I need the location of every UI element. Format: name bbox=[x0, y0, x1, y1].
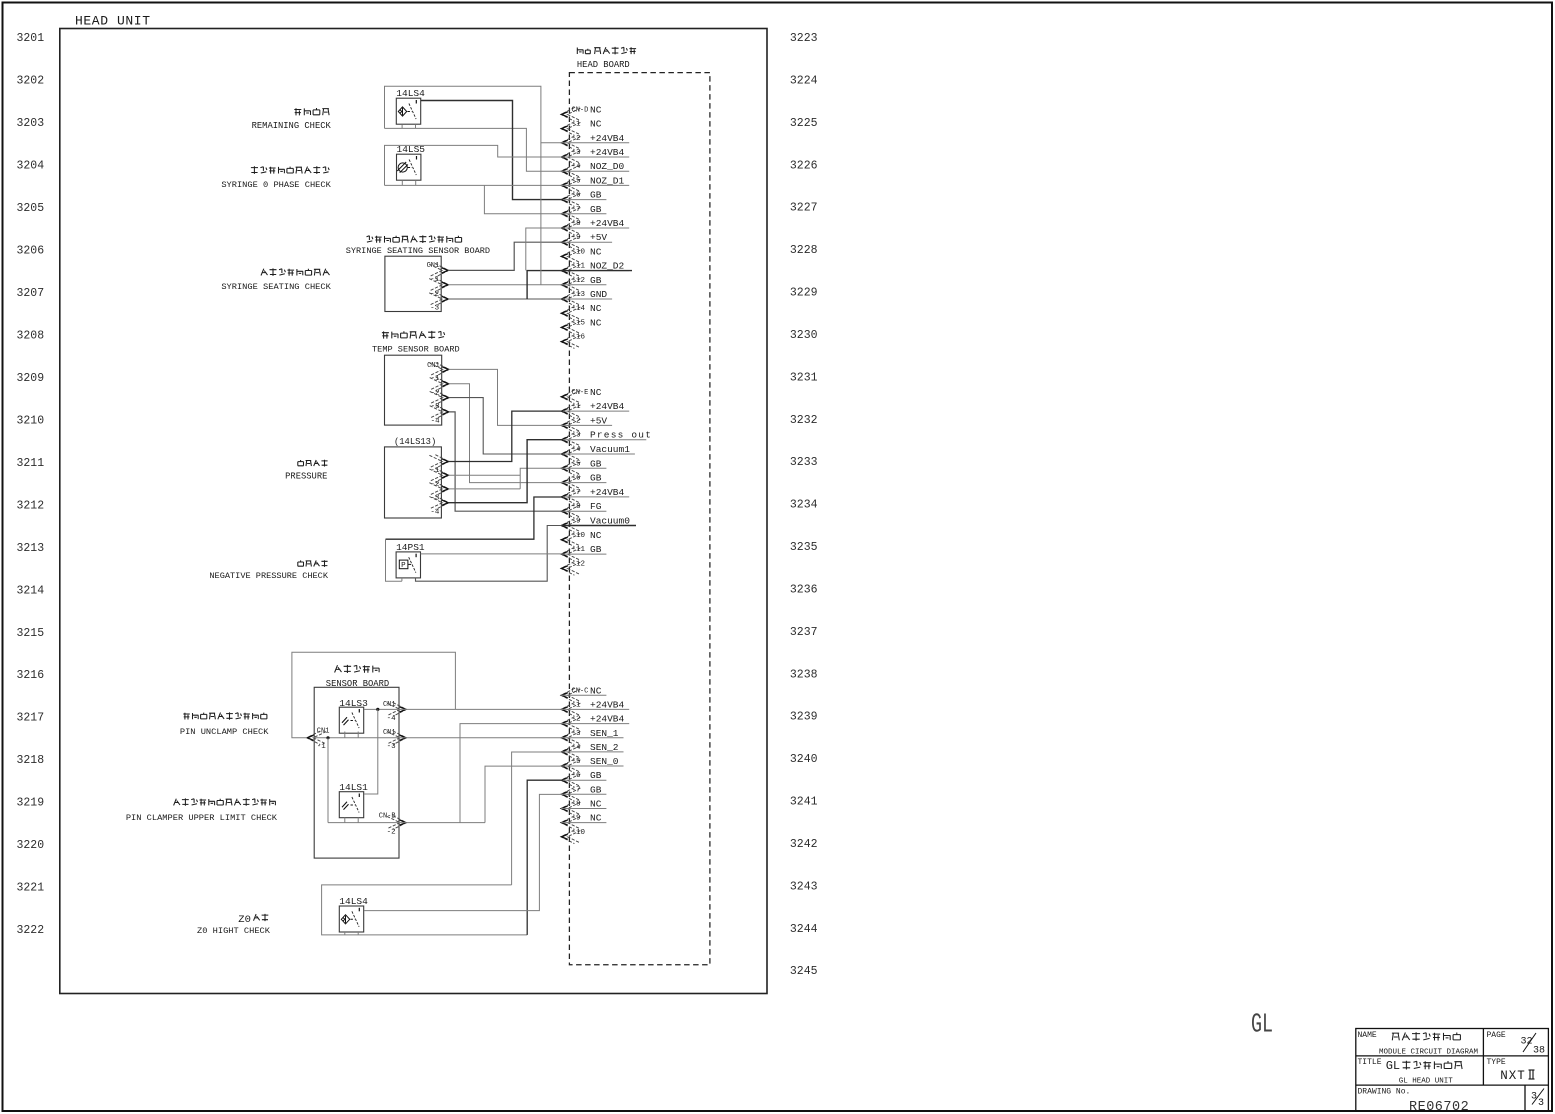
svg-text:CN1: CN1 bbox=[427, 362, 440, 370]
svg-text:NC: NC bbox=[590, 530, 602, 541]
svg-text:3237: 3237 bbox=[790, 626, 818, 639]
svg-text:-5: -5 bbox=[572, 177, 582, 185]
svg-text:+24VB4: +24VB4 bbox=[590, 147, 625, 158]
svg-text:P: P bbox=[401, 562, 406, 570]
svg-text:14LS4: 14LS4 bbox=[396, 88, 425, 99]
connector CN1 temp board pin2 bbox=[430, 377, 449, 391]
wire pressure pin2/pin3 to CN-E-5 GB bbox=[448, 474, 520, 476]
wire CN1-1 loop over board top bbox=[292, 652, 456, 738]
svg-text:3215: 3215 bbox=[17, 627, 45, 640]
wire 14LS1 legs bbox=[344, 818, 346, 823]
svg-text:TEMP SENSOR BOARD: TEMP SENSOR BOARD bbox=[372, 345, 460, 355]
wire 14LS4 bottom to NOZ_D0 riser bbox=[385, 128, 564, 171]
svg-text:3243: 3243 bbox=[790, 880, 818, 893]
connector CN-C pin -4 SEN_2 bbox=[561, 742, 624, 759]
connector CN-C pin -10 bbox=[561, 829, 586, 844]
svg-text:-3: -3 bbox=[387, 743, 397, 751]
svg-text:-12: -12 bbox=[572, 560, 586, 568]
svg-text:3236: 3236 bbox=[790, 584, 818, 597]
temp sensor board outline bbox=[385, 355, 442, 425]
svg-text:NC: NC bbox=[590, 104, 602, 115]
wire 14PS1 to CN-E-11 GB bbox=[421, 553, 564, 555]
svg-text:3241: 3241 bbox=[790, 796, 818, 809]
svg-text:3214: 3214 bbox=[17, 584, 45, 597]
svg-text:-5: -5 bbox=[572, 460, 582, 468]
svg-text:+24VB4: +24VB4 bbox=[590, 133, 625, 144]
svg-text:Z0: Z0 bbox=[238, 914, 251, 926]
svg-text:TYPE: TYPE bbox=[1487, 1058, 1506, 1067]
grid reference numbers left column 3201-3222 bbox=[17, 32, 45, 937]
svg-text:GL: GL bbox=[1386, 1059, 1400, 1073]
label 圧力指示 bbox=[298, 460, 328, 467]
label シリンジ着座確認 bbox=[261, 268, 330, 276]
svg-text:GB: GB bbox=[590, 784, 602, 795]
connector CN-E pin -10 NC bbox=[561, 530, 602, 547]
wire 14LS5 return to CN-D-7 GB bbox=[484, 185, 563, 213]
svg-text:-2: -2 bbox=[387, 828, 396, 836]
svg-text:-8: -8 bbox=[572, 503, 581, 511]
svg-text:-3: -3 bbox=[572, 432, 582, 440]
svg-text:NEGATIVE PRESSURE CHECK: NEGATIVE PRESSURE CHECK bbox=[209, 571, 328, 581]
svg-text:PIN CLAMPER UPPER LIMIT CHECK: PIN CLAMPER UPPER LIMIT CHECK bbox=[126, 813, 278, 823]
svg-text:-2: -2 bbox=[572, 417, 581, 425]
svg-text:GB: GB bbox=[590, 204, 602, 215]
wire 14LS4 output to CN-D-6 GB bbox=[421, 101, 563, 200]
svg-text:PAGE: PAGE bbox=[1487, 1031, 1506, 1040]
svg-text:(14LS13): (14LS13) bbox=[394, 437, 436, 447]
wire +24VB4 drop to 14LS1 bbox=[364, 709, 378, 794]
svg-text:3221: 3221 bbox=[17, 882, 45, 895]
svg-text:3202: 3202 bbox=[17, 75, 45, 88]
wire 14LS4 supply loop to CN-D-2 +24VB4 bbox=[401, 124, 403, 128]
svg-text:3219: 3219 bbox=[17, 797, 45, 810]
svg-text:+5V: +5V bbox=[590, 415, 607, 426]
wire Z0 to CN-C-4 SEN_2 bbox=[512, 752, 563, 885]
svg-text:-4: -4 bbox=[430, 508, 440, 516]
svg-text:-9: -9 bbox=[572, 234, 581, 242]
svg-text:3217: 3217 bbox=[17, 712, 45, 725]
svg-text:GB: GB bbox=[590, 275, 602, 286]
wire riser to CN-C-5 SEN_0 bbox=[485, 766, 563, 823]
svg-text:+24VB4: +24VB4 bbox=[590, 714, 625, 725]
svg-text:-1: -1 bbox=[572, 701, 582, 709]
svg-text:-2: -2 bbox=[431, 389, 440, 397]
svg-text:CN1: CN1 bbox=[383, 701, 396, 709]
wire CN-B-2 line bbox=[328, 822, 460, 824]
svg-text:3220: 3220 bbox=[17, 839, 45, 852]
svg-text:-3: -3 bbox=[572, 730, 582, 738]
wire temp CN1-3 to CN-E-4 Vacuum1 bbox=[449, 398, 563, 454]
svg-text:GB: GB bbox=[590, 770, 602, 781]
label センサ基板 bbox=[335, 665, 380, 673]
drawing frame bbox=[60, 29, 767, 994]
svg-text:3209: 3209 bbox=[17, 372, 45, 385]
svg-text:-11: -11 bbox=[572, 546, 586, 554]
svg-text:3212: 3212 bbox=[17, 499, 45, 512]
svg-text:3222: 3222 bbox=[17, 924, 45, 937]
svg-text:3227: 3227 bbox=[790, 202, 818, 215]
svg-text:-4: -4 bbox=[431, 418, 441, 426]
connector CN-C pin -1 +24VB4 bbox=[561, 699, 629, 716]
svg-text:3: 3 bbox=[1531, 1092, 1537, 1103]
svg-text:+5V: +5V bbox=[590, 232, 607, 243]
wire CN1-2 to CN-D-12 GB bbox=[448, 284, 563, 286]
wire +24VB4 trunk from CN-D-2 row bbox=[540, 143, 542, 285]
connector CN-D pin -16 bbox=[561, 334, 586, 349]
wire junction drop to CN-B line bbox=[327, 738, 329, 823]
svg-text:-7: -7 bbox=[572, 489, 581, 497]
svg-text:GL: GL bbox=[1251, 1011, 1273, 1041]
connector pressure board pin4 bbox=[429, 496, 448, 510]
connector CN-D pin -10 NC bbox=[561, 246, 602, 263]
svg-text:GL HEAD UNIT: GL HEAD UNIT bbox=[1399, 1077, 1454, 1085]
svg-text:3226: 3226 bbox=[790, 159, 818, 172]
connector CN-E pin -12 bbox=[561, 560, 585, 575]
svg-text:14LS4: 14LS4 bbox=[339, 896, 368, 907]
connector CN-C pin -3 SEN_1 bbox=[561, 728, 624, 745]
label シリンジ着座センサ基板 bbox=[367, 235, 462, 243]
svg-text:-8: -8 bbox=[572, 801, 581, 809]
svg-text:NOZ_D1: NOZ_D1 bbox=[590, 175, 625, 186]
wire riser to CN-C-2 +24VB4 bbox=[460, 724, 563, 823]
svg-text:DRAWING No.: DRAWING No. bbox=[1358, 1088, 1411, 1097]
svg-text:REMAINING CHECK: REMAINING CHECK bbox=[252, 121, 332, 131]
svg-text:3201: 3201 bbox=[17, 32, 45, 45]
svg-text:3: 3 bbox=[1538, 1098, 1544, 1109]
connector CN-E pin -3 Press out bbox=[561, 430, 652, 447]
svg-text:HEAD BOARD: HEAD BOARD bbox=[577, 60, 630, 70]
connector pressure board pin1 bbox=[429, 455, 448, 469]
grid reference numbers right column 3223-3245 bbox=[790, 32, 818, 978]
label 負圧確認 bbox=[298, 560, 328, 567]
svg-text:+24VB4: +24VB4 bbox=[590, 699, 625, 710]
connector CN-D pin -13 GND bbox=[561, 289, 612, 306]
svg-text:3242: 3242 bbox=[790, 838, 818, 851]
svg-text:GND: GND bbox=[590, 289, 607, 300]
svg-text:-13: -13 bbox=[572, 291, 586, 299]
svg-text:3203: 3203 bbox=[17, 117, 45, 130]
svg-text:GB: GB bbox=[590, 190, 602, 201]
wire Z0 sensor left loop bbox=[344, 932, 346, 935]
wire temp CN1-1 to CN-E-2 +5V bbox=[449, 369, 563, 425]
wire pressure pin1 to CN-E-1 +24VB4 bbox=[448, 411, 563, 461]
connector CN-D pin CN-D NC bbox=[561, 104, 602, 121]
node junction +24VB4 bbox=[376, 708, 379, 711]
connector CN-C pin -2 +24VB4 bbox=[561, 714, 629, 731]
connector pressure board pin2 bbox=[429, 468, 448, 482]
label 温度センサ基板 bbox=[382, 331, 445, 339]
connector CN-E pin -1 +24VB4 bbox=[561, 401, 629, 418]
svg-text:3211: 3211 bbox=[17, 457, 45, 470]
svg-text:SEN_0: SEN_0 bbox=[590, 756, 619, 767]
wire 14LS3 output to CN-C-1 +24VB4 bbox=[364, 708, 563, 710]
wire temp CN1-2 to CN-E-6 GB bbox=[449, 384, 563, 483]
svg-text:CN-D: CN-D bbox=[572, 106, 589, 114]
wire CN1-3 to CN-D-13 GND bbox=[448, 298, 563, 300]
connector CN-D pin -4 NOZ_D0 bbox=[561, 161, 629, 178]
connector CN-E pin CN-E NC bbox=[561, 387, 602, 404]
svg-text:SEN_2: SEN_2 bbox=[590, 742, 619, 753]
svg-text:Press out: Press out bbox=[590, 430, 652, 441]
wire 14PS1 output to CN-E-9 Vacuum0 bbox=[416, 526, 564, 582]
svg-text:-11: -11 bbox=[572, 263, 586, 271]
svg-text:-3: -3 bbox=[430, 305, 440, 313]
svg-text:NAME: NAME bbox=[1358, 1031, 1377, 1040]
head board ヘッド機能基板 label bbox=[577, 47, 636, 55]
svg-text:-5: -5 bbox=[572, 758, 582, 766]
node junction SEN_1 bbox=[326, 736, 329, 739]
svg-text:3225: 3225 bbox=[790, 117, 818, 130]
connector CN-D pin -9 +5V bbox=[561, 232, 612, 249]
connector CN-D pin -15 NC bbox=[561, 317, 602, 334]
wire 14LS3 legs bbox=[344, 732, 346, 738]
svg-text:-1: -1 bbox=[430, 467, 440, 475]
svg-text:3240: 3240 bbox=[790, 753, 818, 766]
title block table bbox=[1356, 1029, 1549, 1111]
svg-text:3210: 3210 bbox=[17, 414, 45, 427]
wire temp CN1-4 to CN-E-8 FG bbox=[449, 412, 563, 511]
svg-text:-12: -12 bbox=[572, 277, 586, 285]
label ピンクランパ上昇端確認 bbox=[174, 798, 276, 805]
wire 14PS1 supply from CN-E-7 +24VB4 bbox=[386, 497, 564, 539]
svg-text:3207: 3207 bbox=[17, 287, 45, 300]
wire SEN_1 line to CN-C-3 bbox=[314, 737, 563, 739]
svg-text:NC: NC bbox=[590, 799, 602, 810]
svg-text:-14: -14 bbox=[572, 305, 586, 313]
svg-text:-9: -9 bbox=[572, 815, 581, 823]
wire Z0 to CN-C-6 GB bbox=[527, 780, 563, 935]
svg-text:-4: -4 bbox=[572, 744, 582, 752]
svg-text:NC: NC bbox=[590, 317, 602, 328]
svg-text:NC: NC bbox=[590, 387, 602, 398]
connector CN1 temp board pin4 bbox=[430, 405, 449, 419]
svg-text:-4: -4 bbox=[572, 446, 582, 454]
head board outline (dashed) bbox=[569, 73, 710, 965]
wire 14LS5 output to CN-D-5 NOZ_D1 bbox=[385, 184, 564, 186]
svg-text:-1: -1 bbox=[572, 121, 582, 129]
svg-text:TITLE: TITLE bbox=[1358, 1058, 1382, 1067]
svg-text:SEN_1: SEN_1 bbox=[590, 728, 619, 739]
svg-text:3229: 3229 bbox=[790, 287, 818, 300]
svg-text:-2: -2 bbox=[572, 716, 581, 724]
connector CN-D pin -8 +24VB4 bbox=[561, 218, 629, 235]
connector CN-E pin -6 GB bbox=[561, 473, 606, 490]
svg-text:Z0 HIGHT CHECK: Z0 HIGHT CHECK bbox=[197, 926, 271, 936]
connector CN-D pin -5 NOZ_D1 bbox=[561, 175, 629, 192]
svg-text:GB: GB bbox=[590, 544, 602, 555]
svg-text:3206: 3206 bbox=[17, 245, 45, 258]
svg-text:3204: 3204 bbox=[17, 160, 45, 173]
connector CN-D pin -12 GB bbox=[561, 275, 606, 292]
svg-text:3244: 3244 bbox=[790, 923, 818, 936]
svg-text:GB: GB bbox=[590, 458, 602, 469]
wire CN1-1 to CN-D-9 +5V bbox=[448, 242, 563, 270]
connector CN-D pin -2 +24VB4 bbox=[561, 133, 629, 150]
svg-text:3228: 3228 bbox=[790, 244, 818, 257]
svg-text:3238: 3238 bbox=[790, 668, 818, 681]
connector CN-D pin -11 NOZ_D2 bbox=[561, 261, 629, 278]
svg-text:-1: -1 bbox=[572, 403, 582, 411]
svg-text:-7: -7 bbox=[572, 786, 581, 794]
svg-text:-8: -8 bbox=[572, 220, 581, 228]
svg-text:HEAD UNIT: HEAD UNIT bbox=[75, 14, 151, 29]
wire 14LS5 supply loop to CN-D-3 +24VB4 bbox=[401, 180, 403, 185]
connector pressure board pin3 bbox=[429, 482, 448, 496]
svg-text:NC: NC bbox=[590, 813, 602, 824]
connector CN-D pin -7 GB bbox=[561, 204, 606, 221]
svg-text:-4: -4 bbox=[387, 715, 397, 723]
svg-text:-6: -6 bbox=[572, 192, 582, 200]
svg-text:Vacuum1: Vacuum1 bbox=[590, 444, 630, 455]
label 残量検知 bbox=[294, 108, 329, 115]
syringe seating sensor board outline bbox=[385, 256, 441, 311]
svg-text:3234: 3234 bbox=[790, 499, 818, 512]
svg-text:3231: 3231 bbox=[790, 371, 818, 384]
wire Z0 to CN-C-7 GB bbox=[364, 794, 563, 910]
connector CN-C pin -6 GB bbox=[561, 770, 606, 787]
svg-text:+24VB4: +24VB4 bbox=[590, 401, 625, 412]
label シリンジ0位相確認 bbox=[251, 166, 329, 174]
svg-text:NC: NC bbox=[590, 303, 602, 314]
svg-text:FG: FG bbox=[590, 501, 602, 512]
svg-text:NC: NC bbox=[590, 119, 602, 130]
svg-text:-10: -10 bbox=[572, 248, 586, 256]
svg-text:CN1: CN1 bbox=[427, 262, 440, 270]
svg-text:3230: 3230 bbox=[790, 329, 818, 342]
svg-text:PRESSURE: PRESSURE bbox=[285, 472, 327, 482]
svg-text:GB: GB bbox=[590, 473, 602, 484]
connector CN-C pin -9 NC bbox=[561, 813, 606, 830]
svg-text:14PS1: 14PS1 bbox=[396, 542, 425, 553]
svg-text:NC: NC bbox=[590, 246, 602, 257]
connector CN-E pin -2 +5V bbox=[561, 415, 612, 432]
svg-text:3218: 3218 bbox=[17, 754, 45, 767]
svg-text:-6: -6 bbox=[572, 475, 582, 483]
connector CN-E pin -11 GB bbox=[561, 544, 606, 561]
svg-text:CN-E: CN-E bbox=[572, 389, 589, 397]
svg-text:-10: -10 bbox=[572, 532, 586, 540]
svg-text:3232: 3232 bbox=[790, 414, 818, 427]
svg-text:RE06702: RE06702 bbox=[1409, 1100, 1469, 1114]
svg-text:-10: -10 bbox=[572, 829, 586, 837]
svg-text:3208: 3208 bbox=[17, 330, 45, 343]
svg-text:-6: -6 bbox=[572, 772, 582, 780]
svg-text:NXT: NXT bbox=[1500, 1069, 1526, 1083]
connector CN-C pin CN-C NC bbox=[561, 685, 606, 702]
svg-text:MODULE CIRCUIT DIAGRAM: MODULE CIRCUIT DIAGRAM bbox=[1379, 1049, 1479, 1057]
svg-text:NOZ_D0: NOZ_D0 bbox=[590, 161, 625, 172]
svg-text:SYRINGE SEATING CHECK: SYRINGE SEATING CHECK bbox=[221, 282, 331, 292]
svg-text:3216: 3216 bbox=[17, 669, 45, 682]
connector CN-C pin -5 SEN_0 bbox=[561, 756, 624, 773]
connector CN-E pin -7 +24VB4 bbox=[561, 487, 629, 504]
svg-text:+24VB4: +24VB4 bbox=[590, 487, 625, 498]
connector CN-E pin -8 FG bbox=[561, 501, 606, 518]
svg-text:38: 38 bbox=[1533, 1046, 1545, 1057]
svg-text:32: 32 bbox=[1521, 1037, 1533, 1048]
pressure sensor board outline bbox=[385, 447, 442, 518]
svg-text:NC: NC bbox=[590, 685, 602, 696]
svg-text:-1: -1 bbox=[317, 743, 327, 751]
wire riser to CN-D-8 +24VB4 bbox=[526, 228, 563, 270]
svg-text:-7: -7 bbox=[572, 206, 581, 214]
svg-text:+24VB4: +24VB4 bbox=[590, 218, 625, 229]
connector CN1 syringe board pin2 bbox=[429, 278, 448, 292]
connector CN-D pin -14 NC bbox=[561, 303, 602, 320]
wire pressure pin4 to CN-E-3 Press out bbox=[448, 440, 563, 503]
connector CN-D pin -6 GB bbox=[561, 190, 606, 207]
svg-text:3245: 3245 bbox=[790, 965, 818, 978]
svg-text:-15: -15 bbox=[572, 319, 586, 327]
connector CN-C pin -7 GB bbox=[561, 784, 606, 801]
wire riser to CN-D-11 NOZ_D2 bbox=[527, 271, 563, 299]
svg-text:PIN UNCLAMP CHECK: PIN UNCLAMP CHECK bbox=[180, 727, 269, 737]
svg-text:3235: 3235 bbox=[790, 541, 818, 554]
svg-text:3213: 3213 bbox=[17, 542, 45, 555]
connector CN1 temp board pin1 bbox=[430, 363, 449, 377]
svg-text:3233: 3233 bbox=[790, 456, 818, 469]
svg-text:-16: -16 bbox=[572, 334, 586, 342]
sensor board outline bbox=[314, 687, 399, 858]
label ピンアンクランプ確認 bbox=[183, 712, 267, 719]
svg-text:CN-C: CN-C bbox=[572, 687, 589, 695]
connector CN-E pin -5 GB bbox=[561, 458, 606, 475]
svg-text:3223: 3223 bbox=[790, 32, 818, 45]
connector CN1 temp board pin3 bbox=[430, 391, 449, 405]
svg-text:-3: -3 bbox=[572, 149, 582, 157]
connector CN-D pin -3 +24VB4 bbox=[561, 147, 629, 164]
connector CN-E pin -9 Vacuum0 bbox=[561, 516, 635, 533]
connector CN-E pin -4 Vacuum1 bbox=[561, 444, 635, 461]
connector CN-C pin -8 NC bbox=[561, 799, 606, 816]
svg-text:-4: -4 bbox=[572, 163, 582, 171]
connector CN-D pin -1 NC bbox=[561, 119, 602, 136]
svg-text:-9: -9 bbox=[572, 518, 581, 526]
svg-text:3239: 3239 bbox=[790, 711, 818, 724]
svg-text:SYRINGE SEATING SENSOR BOARD: SYRINGE SEATING SENSOR BOARD bbox=[346, 246, 490, 256]
svg-text:-2: -2 bbox=[572, 135, 581, 143]
svg-text:3224: 3224 bbox=[790, 74, 818, 87]
svg-text:3205: 3205 bbox=[17, 202, 45, 215]
connector CN1 syringe board pin3 bbox=[429, 292, 448, 306]
svg-text:SYRINGE 0 PHASE CHECK: SYRINGE 0 PHASE CHECK bbox=[221, 180, 331, 190]
